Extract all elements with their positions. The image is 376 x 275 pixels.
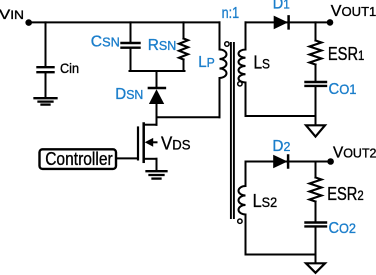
node LS polarity dot — [238, 82, 242, 86]
resistor ESR1 — [310, 41, 322, 65]
ground (Cin) — [35, 98, 57, 104]
transistor Q1 MOSFET — [137, 128, 139, 160]
wire ESR1 to CO1 — [315, 65, 317, 81]
svg-text:CSN: CSN — [91, 34, 120, 51]
controller box — [40, 149, 117, 169]
wire snubber to DSN — [156, 71, 158, 87]
wire CO1 to bottom — [315, 87, 317, 116]
wire secondary2 bottom — [246, 254, 316, 256]
svg-text:VOUT1: VOUT1 — [331, 3, 376, 20]
wire CO2 to bottom — [315, 228, 317, 255]
inductor LS2 winding — [239, 162, 246, 255]
wire ESR1 branch — [315, 22, 317, 40]
wire ESR2 to CO2 — [315, 202, 317, 222]
inductor LS secondary winding — [239, 22, 246, 116]
wire RSN branch — [183, 22, 185, 38]
svg-text:D1: D1 — [273, 0, 290, 12]
node VOUT1 dot — [327, 19, 334, 26]
resistor RSN — [179, 39, 188, 60]
svg-text:ESR2: ESR2 — [327, 184, 364, 204]
resistor ESR2 — [310, 178, 322, 202]
wire controller to gate — [116, 157, 138, 159]
svg-text:DSN: DSN — [115, 86, 143, 103]
inductor LP primary winding — [220, 22, 227, 117]
transformer core — [231, 43, 234, 218]
node primary polarity dot — [225, 42, 229, 46]
svg-text:VOUT2: VOUT2 — [333, 145, 376, 162]
svg-text:CO1: CO1 — [329, 81, 357, 98]
wire secondary1 bottom — [246, 115, 316, 117]
wire ESR2 branch — [315, 162, 317, 178]
wire drain node to primary — [157, 116, 220, 118]
ground (MOSFET source) — [147, 171, 167, 178]
capacitor CO2 — [306, 223, 327, 227]
wire CSN bottom — [130, 49, 132, 71]
wire DSN anode to drain node — [156, 104, 158, 125]
wire Cin to ground — [45, 73, 47, 96]
wire RSN bottom — [183, 60, 185, 72]
svg-text:LP: LP — [198, 54, 215, 71]
capacitor CSN — [122, 43, 140, 48]
svg-text:VDS: VDS — [161, 133, 191, 153]
wire secondary1 top — [246, 21, 331, 23]
wire top rail VIN to primary — [29, 21, 220, 23]
svg-text:n:1: n:1 — [222, 5, 240, 22]
diode DSN — [149, 87, 165, 90]
capacitor CO1 — [306, 82, 327, 86]
svg-text:LS2: LS2 — [253, 191, 278, 211]
capacitor Cin — [38, 67, 54, 72]
node LS2 polarity dot — [238, 219, 242, 223]
node VIN dot — [25, 19, 32, 26]
diode D2 — [273, 155, 287, 169]
ground (output2) — [315, 255, 317, 264]
wire CSN branch — [130, 22, 132, 41]
svg-text:CO2: CO2 — [329, 220, 357, 237]
wire snubber bottom — [130, 70, 185, 72]
svg-text:LS: LS — [254, 53, 271, 73]
node VOUT2 dot — [327, 158, 334, 165]
svg-text:Controller: Controller — [45, 149, 113, 169]
svg-text:RSN: RSN — [148, 37, 177, 54]
svg-text:Cin: Cin — [60, 60, 79, 76]
wire secondary2 top — [246, 161, 331, 163]
diode D1 — [274, 16, 288, 30]
svg-text:ESR1: ESR1 — [328, 44, 365, 64]
svg-text:D2: D2 — [272, 138, 290, 155]
ground (output1) — [315, 116, 317, 125]
wire Cin branch — [45, 22, 47, 66]
